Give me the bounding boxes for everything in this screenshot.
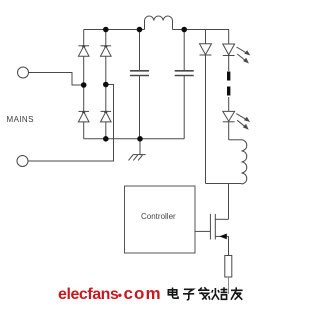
char dian bbox=[168, 288, 178, 299]
node top rail at C2 bbox=[181, 27, 187, 33]
elecfans.com logo bbox=[58, 284, 162, 303]
LED1 arrows bbox=[237, 47, 250, 63]
wire L2 bottom to D5 cathode bbox=[206, 183, 242, 185]
LED LED2 bbox=[223, 111, 235, 139]
char you bbox=[231, 287, 243, 299]
LED LED1 bbox=[223, 30, 235, 72]
wire LED2 to L2 bbox=[229, 139, 242, 141]
node bridge AC2 bbox=[103, 82, 109, 88]
node bottom rail at ground bbox=[137, 136, 143, 142]
char fa bbox=[198, 287, 210, 299]
svg-text:elecfans: elecfans bbox=[58, 286, 119, 303]
wire dashed LED continuation bbox=[227, 72, 230, 96]
wire LED string middle bbox=[228, 97, 230, 111]
diode D2 bbox=[101, 45, 112, 56]
resistor R1 bbox=[225, 256, 232, 278]
char shao bbox=[212, 287, 228, 300]
diode D5 bbox=[200, 30, 212, 184]
capacitor C1 bbox=[130, 30, 149, 139]
node bottom rail at right column bbox=[103, 136, 109, 142]
inductor L1 bbox=[145, 16, 173, 29]
wire top rail bbox=[84, 29, 145, 31]
transistor Q1 bbox=[210, 214, 228, 240]
node top rail at C1 bbox=[137, 27, 143, 33]
diode D1 bbox=[78, 45, 89, 56]
svg-text:com: com bbox=[124, 284, 162, 303]
svg-text:Controller: Controller bbox=[141, 212, 176, 221]
diode D3 bbox=[78, 111, 89, 122]
chinese watermark 电子发烧友 bbox=[168, 287, 242, 300]
wire bridge left column bbox=[83, 30, 85, 139]
node bridge AC1 bbox=[81, 82, 87, 88]
terminal T2 (mains bottom) bbox=[17, 156, 28, 167]
wire drain vertical bbox=[228, 184, 230, 220]
wire bottom rail bbox=[84, 138, 185, 140]
wire source vertical bbox=[228, 236, 230, 255]
controller box U1 bbox=[125, 186, 196, 253]
wire T2 to bridge AC2 bbox=[28, 85, 114, 162]
ground bbox=[129, 139, 146, 161]
svg-text:MAINS: MAINS bbox=[7, 115, 34, 124]
inductor L2 bbox=[242, 140, 247, 184]
wire below R1 bbox=[228, 277, 230, 294]
wire top rail right section bbox=[173, 29, 230, 31]
capacitor C2 bbox=[175, 30, 194, 139]
node top rail at right column bbox=[103, 27, 109, 33]
terminal T1 (mains top) bbox=[18, 67, 29, 78]
LED2 arrows bbox=[236, 114, 249, 129]
wire T1 to bridge AC1 bbox=[29, 73, 84, 86]
char zi bbox=[183, 289, 194, 300]
wire gate from controller bbox=[195, 230, 210, 232]
diode D4 bbox=[101, 111, 112, 122]
wire bridge right column bbox=[105, 30, 107, 139]
